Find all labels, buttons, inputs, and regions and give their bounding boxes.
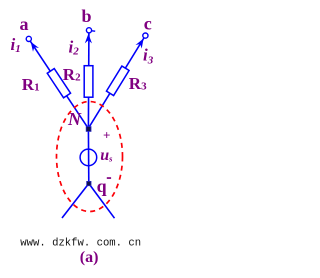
resistor R3 body [106, 66, 129, 96]
svg-text:www. dzkfw. com. cn: www. dzkfw. com. cn [20, 237, 141, 249]
svg-text:+: + [103, 127, 110, 142]
resistor R2 body [84, 66, 93, 98]
svg-text:i1: i1 [11, 35, 21, 55]
terminal c open circle [143, 33, 148, 38]
svg-text:b: b [82, 6, 92, 26]
terminal a open circle [26, 36, 31, 41]
svg-text:i3: i3 [143, 46, 154, 67]
svg-text:N: N [67, 109, 82, 129]
current arrow i2 on wire b [85, 34, 92, 44]
wire from node q down-right [89, 184, 115, 219]
wire from node N to terminal b (with resistor R2 in series) [87, 33, 90, 128]
svg-text:q: q [97, 176, 107, 196]
node q junction dot [87, 181, 91, 185]
svg-text:i2: i2 [69, 38, 80, 58]
current arrow i1 on wire a [31, 42, 39, 52]
dashed red ellipse around source [57, 102, 123, 212]
wire from node q down-left [62, 184, 89, 219]
resistor R1 body [47, 69, 70, 98]
tick on terminal b circle [92, 30, 96, 32]
svg-text:a: a [20, 14, 29, 34]
svg-text:(a): (a) [80, 249, 99, 266]
svg-text:R3: R3 [129, 74, 147, 93]
svg-text:c: c [144, 14, 152, 34]
minus sign of source [107, 177, 111, 179]
voltage source us circle [80, 149, 97, 166]
svg-text:R2: R2 [63, 65, 81, 84]
wire from node N to terminal a (with resistor R1 in series) [30, 41, 88, 128]
current arrow i3 on wire c [136, 39, 144, 49]
svg-text:R1: R1 [22, 75, 40, 94]
node N junction dot [86, 127, 91, 132]
wire from node N to terminal c (with resistor R3 in series) [88, 38, 144, 129]
svg-text:us: us [100, 147, 113, 164]
wire from node N through source to node q [87, 128, 89, 183]
terminal b open circle [86, 28, 91, 33]
